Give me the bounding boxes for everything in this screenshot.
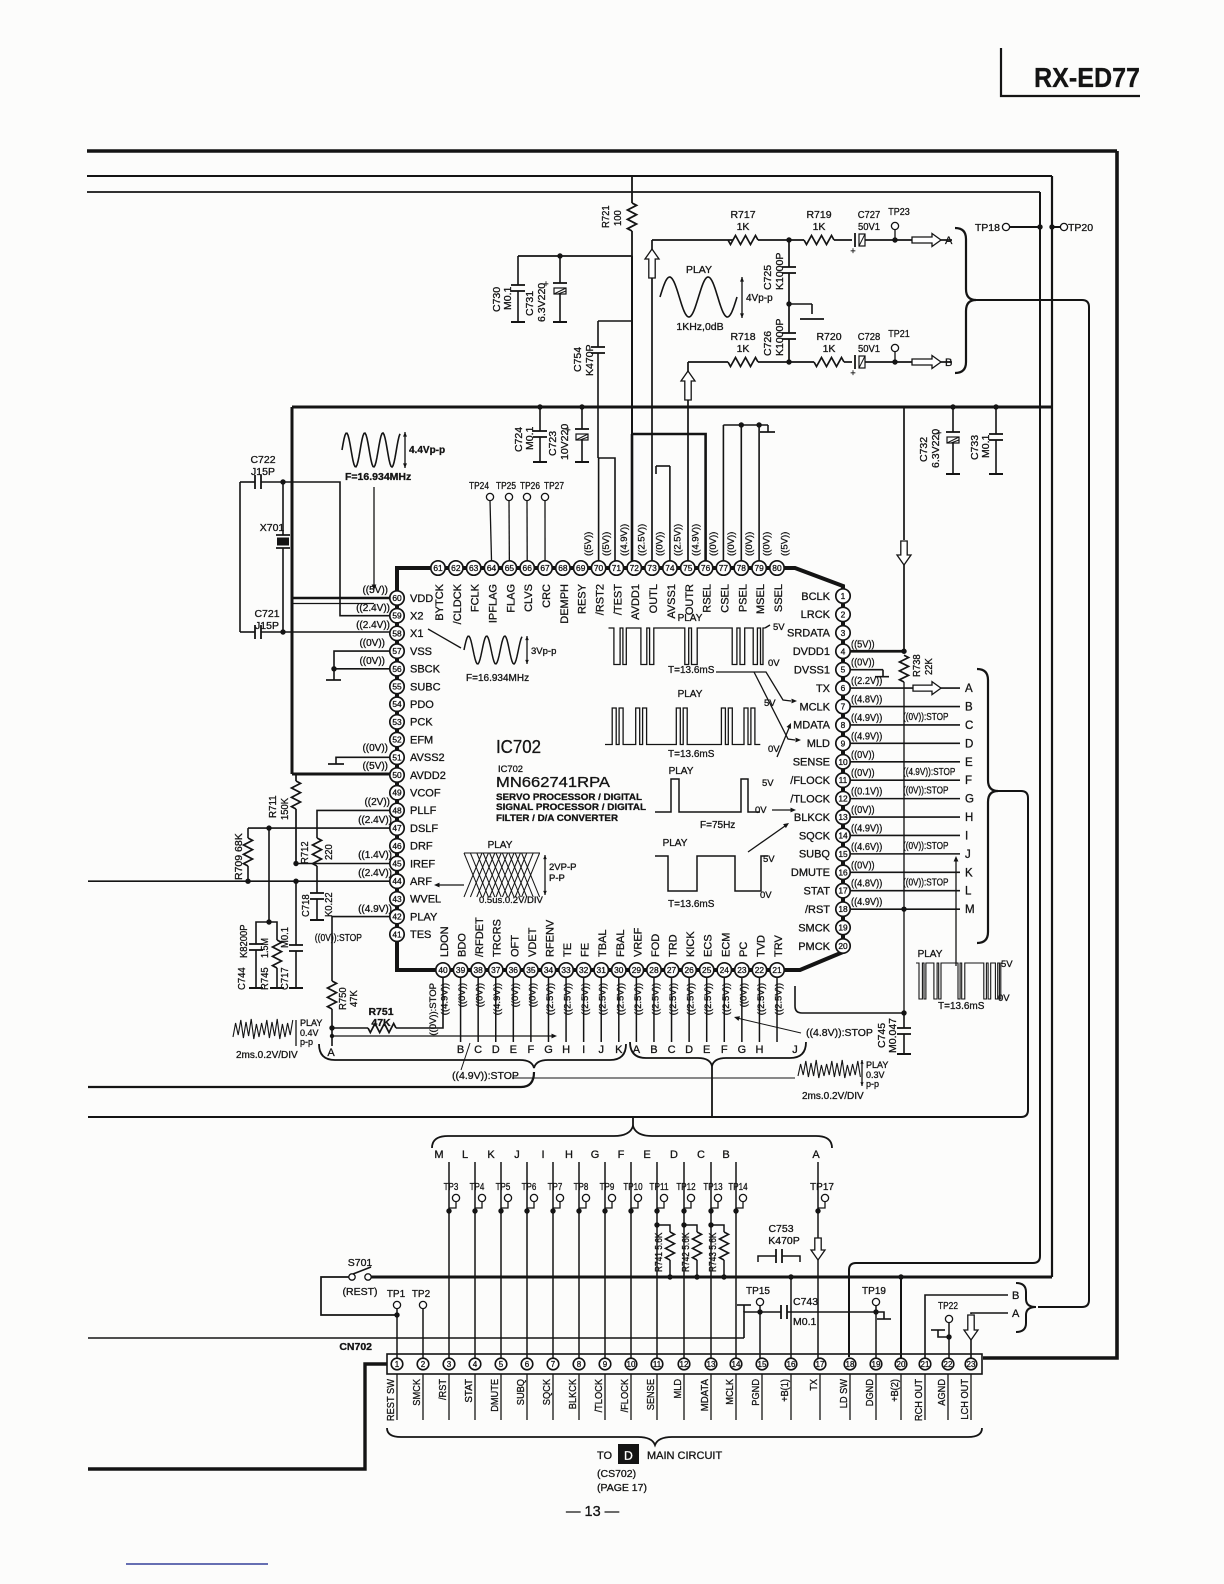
wire A/B bundle to V3 <box>976 300 1089 1307</box>
pin 19 CN702 DGND <box>870 1358 882 1370</box>
svg-text:1KHz,0dB: 1KHz,0dB <box>676 321 723 333</box>
svg-text:((2.5V)): ((2.5V)) <box>615 983 626 1015</box>
svg-text:((2.5V)): ((2.5V)) <box>563 983 574 1015</box>
svg-text:23: 23 <box>737 965 747 975</box>
svg-text:PLAY: PLAY <box>678 613 703 624</box>
capacitor C730 M0.1 <box>517 256 519 285</box>
svg-text:E: E <box>703 1044 710 1056</box>
capacitor C724 M0.1 <box>537 404 542 409</box>
svg-text:((0V)): ((0V)) <box>851 804 875 816</box>
wire ARF long (to left edge) <box>88 880 390 882</box>
resistor R741 5.6K <box>657 1225 670 1232</box>
svg-text:15: 15 <box>758 1360 767 1369</box>
svg-text:FBAL: FBAL <box>615 929 627 957</box>
svg-text:28: 28 <box>649 965 659 975</box>
svg-text:TVD: TVD <box>755 935 767 957</box>
pin 44 ARF <box>390 874 404 888</box>
svg-text:4Vp-p: 4Vp-p <box>746 293 773 304</box>
pin 30 FBAL <box>612 963 626 977</box>
svg-text:220: 220 <box>323 844 335 860</box>
svg-text:((0V)):STOP: ((0V)):STOP <box>428 983 439 1036</box>
svg-text:A: A <box>965 683 973 695</box>
pin 20 CN702 +B(2) <box>895 1358 907 1370</box>
resistor R745 1.5M <box>269 922 277 940</box>
svg-text:((0V)):STOP: ((0V)):STOP <box>903 711 949 723</box>
svg-text:TP1: TP1 <box>387 1289 406 1300</box>
svg-text:((0V)): ((0V)) <box>744 532 755 556</box>
wire node K to CN702 pin5 <box>500 1162 502 1358</box>
wire +B(1) riser <box>790 1277 792 1358</box>
wire C727 to arrow A <box>880 239 912 241</box>
svg-text:72: 72 <box>630 563 640 573</box>
svg-text:D: D <box>685 1044 693 1056</box>
wire pin39 stub <box>460 977 462 1042</box>
svg-text:80: 80 <box>772 563 782 573</box>
pin 21 CN702 RCH OUT <box>919 1358 931 1370</box>
svg-text:B: B <box>1012 1290 1019 1302</box>
svg-text:4: 4 <box>841 646 846 656</box>
svg-text:19: 19 <box>872 1360 881 1369</box>
pointer arrow to H wire <box>332 1035 552 1037</box>
wire pin25 stub <box>706 977 708 1042</box>
svg-text:X2: X2 <box>410 611 423 623</box>
svg-text:B: B <box>722 1149 729 1161</box>
pin 6 CN702 SUBQ <box>521 1358 533 1370</box>
svg-text:ARF: ARF <box>410 876 432 888</box>
svg-text:((0V)):STOP: ((0V)):STOP <box>903 840 949 852</box>
wire R718 to node <box>758 361 814 363</box>
svg-text:/CLDCK: /CLDCK <box>452 583 464 624</box>
svg-text:/FLOCK: /FLOCK <box>790 775 830 787</box>
svg-text:29: 29 <box>632 965 642 975</box>
pin 66 CLVS <box>520 561 534 575</box>
capacitor C725 K1000P <box>788 240 790 267</box>
svg-text:CRC: CRC <box>541 584 553 608</box>
svg-text:((2.4V)): ((2.4V)) <box>356 620 390 631</box>
svg-text:6.3V220: 6.3V220 <box>536 283 548 322</box>
svg-text:PCK: PCK <box>410 717 433 729</box>
resistor R751 47K <box>332 1027 368 1029</box>
wire R720 to C728 <box>844 361 852 363</box>
wire right vertical V1 <box>849 192 1040 1357</box>
svg-text:C: C <box>474 1044 482 1056</box>
svg-text:C753: C753 <box>768 1223 793 1235</box>
capacitor C717 M0.1 <box>295 881 297 945</box>
svg-text:R743 5.6K: R743 5.6K <box>708 1232 719 1272</box>
svg-text:C728: C728 <box>858 331 881 343</box>
svg-text:((0V)): ((0V)) <box>851 767 875 779</box>
svg-text:63: 63 <box>469 563 479 573</box>
pin 80 SSEL <box>770 561 784 575</box>
svg-text:F=16.934MHz: F=16.934MHz <box>345 471 411 483</box>
svg-text:47K: 47K <box>371 1017 391 1029</box>
svg-text:R712: R712 <box>299 841 311 864</box>
svg-text:TP22: TP22 <box>938 1301 958 1312</box>
capacitor C723 10V220 (electrolytic) <box>579 404 584 409</box>
svg-text:49: 49 <box>392 788 402 798</box>
wire DVSS1 gnd <box>850 669 883 671</box>
svg-text:FOD: FOD <box>650 934 662 957</box>
svg-text:TP12: TP12 <box>676 1182 695 1193</box>
svg-text:C: C <box>697 1149 705 1161</box>
node X1 net <box>280 629 285 634</box>
wire top rail 2 <box>87 175 1052 177</box>
svg-text:PLAY: PLAY <box>300 1018 322 1028</box>
wire letters bundle to bottom <box>88 791 1028 1117</box>
pin 49 VCOF <box>390 786 404 800</box>
svg-text:M: M <box>434 1149 443 1161</box>
svg-text:DVDD1: DVDD1 <box>793 646 830 658</box>
svg-text:1K: 1K <box>737 221 750 233</box>
pin 13 BLKCK <box>836 810 850 824</box>
svg-text:WVEL: WVEL <box>410 894 441 906</box>
wire pin15 to node J <box>850 853 960 855</box>
svg-text:OFT: OFT <box>509 935 521 957</box>
svg-text:46: 46 <box>392 841 402 851</box>
svg-text:68: 68 <box>558 563 568 573</box>
svg-text:L: L <box>965 886 972 898</box>
svg-text:A: A <box>945 235 953 247</box>
svg-text:((4.6V)): ((4.6V)) <box>851 841 882 853</box>
svg-text:H: H <box>565 1149 573 1161</box>
pin 32 FE <box>576 963 590 977</box>
svg-text:TP2: TP2 <box>412 1289 431 1300</box>
svg-text:VDD: VDD <box>410 593 433 605</box>
pin 76 RSEL <box>698 561 712 575</box>
svg-text:B: B <box>965 702 973 714</box>
svg-text:BDO: BDO <box>457 933 469 957</box>
svg-text:T=13.6mS: T=13.6mS <box>668 899 715 910</box>
pin 73 OUTL <box>645 561 659 575</box>
svg-text:52: 52 <box>392 735 402 745</box>
svg-text:SSEL: SSEL <box>773 584 785 612</box>
wire pin18 to node M <box>850 908 960 910</box>
pin 77 CSEL <box>716 561 730 575</box>
svg-text:0V: 0V <box>760 890 772 901</box>
pin 18 CN702 LD SW <box>844 1358 856 1370</box>
svg-text:((4.9V)): ((4.9V)) <box>358 904 392 915</box>
wire pin14 to node I <box>850 834 960 836</box>
svg-text:53: 53 <box>392 717 402 727</box>
wire pin28 stub <box>653 977 655 1042</box>
svg-text:45: 45 <box>392 859 402 869</box>
svg-text:((2.5V)): ((2.5V)) <box>703 983 714 1015</box>
svg-text:PLAY: PLAY <box>488 840 513 851</box>
svg-text:PDO: PDO <box>410 699 434 711</box>
svg-text:AVSS2: AVSS2 <box>410 752 445 764</box>
svg-text:26: 26 <box>684 965 694 975</box>
wire CN702 left thick feed <box>88 1364 387 1469</box>
svg-text:30: 30 <box>614 965 624 975</box>
svg-text:5V: 5V <box>763 854 775 865</box>
pointer arrow to VDD wire <box>373 487 375 585</box>
svg-text:G: G <box>591 1149 600 1161</box>
waveform ARF eye pattern <box>464 853 482 897</box>
pin 26 KICK <box>682 963 696 977</box>
resistor R720 <box>814 358 844 367</box>
svg-text:K: K <box>487 1149 495 1161</box>
capacitor C718 K0.22 <box>310 892 324 894</box>
svg-text:55: 55 <box>392 682 402 692</box>
svg-text:((4.9V)):STOP: ((4.9V)):STOP <box>903 766 955 778</box>
wire node A to CN702 pin17 <box>817 1162 819 1238</box>
label D main circuit box <box>618 1444 639 1464</box>
svg-text:F: F <box>528 1044 535 1056</box>
svg-text:P-P: P-P <box>549 873 565 884</box>
svg-text:RX-ED77: RX-ED77 <box>1034 62 1140 93</box>
svg-text:((5V)): ((5V)) <box>779 532 790 556</box>
node C725/C726 mid <box>786 301 791 306</box>
svg-text:— 13 —: — 13 — <box>566 1504 620 1520</box>
pin 6 TX <box>836 681 850 695</box>
svg-text:21: 21 <box>772 965 782 975</box>
pin 3 SRDATA <box>836 626 850 640</box>
pointer B to STOP label <box>461 1043 470 1070</box>
wire S701 left loop <box>321 1277 397 1315</box>
wire AVDD1 riser thick <box>631 434 634 561</box>
svg-text:((5V)): ((5V)) <box>851 638 875 650</box>
svg-text:34: 34 <box>544 965 554 975</box>
svg-text:SUBC: SUBC <box>410 681 441 693</box>
svg-text:ECS: ECS <box>703 934 715 957</box>
svg-text:((1.4V)): ((1.4V)) <box>358 850 392 861</box>
svg-text:R718: R718 <box>730 331 755 343</box>
svg-text:p-p: p-p <box>866 1079 879 1089</box>
svg-text:FLAG: FLAG <box>505 584 517 613</box>
svg-text:C721: C721 <box>254 608 279 620</box>
svg-text:J: J <box>598 1044 604 1056</box>
svg-text:70: 70 <box>594 563 604 573</box>
svg-text:C718: C718 <box>300 894 312 917</box>
pin 65 FLAG <box>502 561 516 575</box>
pointer ECM to STOP label <box>737 1018 801 1033</box>
wire C728 to arrow B <box>880 361 912 363</box>
pin 69 RESY <box>574 561 588 575</box>
svg-text:R738: R738 <box>911 654 923 677</box>
testpoint TP20 <box>1060 223 1067 230</box>
svg-text:G: G <box>544 1044 553 1056</box>
pin 19 SMCK <box>836 920 850 934</box>
svg-text:33: 33 <box>561 965 571 975</box>
svg-text:E: E <box>643 1149 650 1161</box>
svg-text:VREF: VREF <box>632 927 644 957</box>
svg-text:36: 36 <box>509 965 519 975</box>
pin 20 PMCK <box>836 939 850 953</box>
svg-text:1: 1 <box>395 1360 400 1369</box>
pin 61 BYTCK <box>431 561 445 575</box>
svg-text:C723: C723 <box>547 431 559 456</box>
wire pin38 stub <box>477 977 479 1042</box>
svg-text:((5V)): ((5V)) <box>583 532 594 556</box>
brace right letters A-M <box>977 669 998 943</box>
arrow right to A <box>912 234 941 247</box>
svg-text:I: I <box>582 1044 585 1056</box>
pin 67 CRC <box>538 561 552 575</box>
svg-text:10: 10 <box>838 757 848 767</box>
svg-text:((4.9V)):STOP: ((4.9V)):STOP <box>452 1070 519 1082</box>
svg-text:SERVO PROCESSOR / DIGITAL: SERVO PROCESSOR / DIGITAL <box>496 792 642 802</box>
svg-text:J15P: J15P <box>255 620 279 632</box>
wire R745/C744 riser <box>268 828 270 922</box>
wire PGND rail to left edge <box>88 1337 744 1339</box>
svg-text:AVDD1: AVDD1 <box>630 584 642 620</box>
wire pin29 stub <box>635 977 637 1042</box>
wire right border thick (frame) <box>983 151 1117 1358</box>
svg-text:X1: X1 <box>410 628 423 640</box>
capacitor C745 M0.047 <box>901 1010 906 1015</box>
wire pin21 stub <box>776 977 778 1042</box>
arrow right to B <box>912 356 941 369</box>
svg-text:25: 25 <box>702 965 712 975</box>
pointer arrow to J wire <box>955 860 957 966</box>
resistor R743 5.6K <box>711 1225 724 1232</box>
svg-text:((0V)): ((0V)) <box>359 638 385 649</box>
svg-text:R719: R719 <box>806 209 831 221</box>
wire arrow to A <box>941 239 952 241</box>
svg-text:TP4: TP4 <box>470 1182 485 1193</box>
svg-text:/RST: /RST <box>805 904 830 916</box>
testpoint TP21 <box>891 344 898 351</box>
svg-text:((2.5V)): ((2.5V)) <box>598 983 609 1015</box>
node C726 bottom <box>786 359 791 364</box>
wire pin17 to node L <box>850 890 960 892</box>
svg-text:AVSS1: AVSS1 <box>666 584 678 619</box>
pin 72 AVDD1 <box>627 561 641 575</box>
wire top border thick <box>87 149 1117 153</box>
svg-text:21: 21 <box>921 1360 930 1369</box>
svg-text:+B(1): +B(1) <box>779 1379 791 1402</box>
wire X2 net <box>283 482 390 616</box>
pin 75 OUTR <box>681 561 695 575</box>
pin 35 VDET <box>524 963 538 977</box>
svg-text:((0V)): ((0V)) <box>359 656 385 667</box>
pin 34 RFENV <box>541 963 555 977</box>
pin 22 TVD <box>752 963 766 977</box>
svg-text:((0V)): ((0V)) <box>708 532 719 556</box>
svg-text:+: + <box>850 368 855 378</box>
svg-text:18: 18 <box>838 904 848 914</box>
svg-text:1: 1 <box>841 591 846 601</box>
wire arrow to B <box>941 361 952 363</box>
wire inner rail top <box>292 406 1052 409</box>
svg-text:BLKCK: BLKCK <box>794 812 831 824</box>
connector CN702 body <box>387 1354 982 1374</box>
svg-text:51: 51 <box>392 752 402 762</box>
svg-text:((2.5V)): ((2.5V)) <box>545 983 556 1015</box>
svg-text:TP26: TP26 <box>520 481 540 492</box>
svg-text:+: + <box>850 246 855 256</box>
svg-text:2ms.0.2V/DIV: 2ms.0.2V/DIV <box>236 1050 298 1061</box>
wire +B(2) riser <box>900 1277 902 1358</box>
wire X1 to pin58 <box>283 631 390 633</box>
svg-text:MN662741RPA: MN662741RPA <box>496 775 610 791</box>
svg-text:((4.9V)): ((4.9V)) <box>851 730 882 742</box>
svg-text:(REST): (REST) <box>343 1286 378 1298</box>
pin 74 AVSS1 <box>663 561 677 575</box>
svg-text:TRV: TRV <box>773 935 785 957</box>
pin 9 CN702 /TLOCK <box>599 1358 611 1370</box>
svg-text:2: 2 <box>841 609 846 619</box>
svg-text:C754: C754 <box>572 347 584 372</box>
wire node H to CN702 pin8 <box>578 1162 580 1358</box>
wire pin16 to node K <box>850 871 960 873</box>
pin 64 IPFLAG <box>484 561 498 575</box>
wire inner rail left edge <box>291 407 294 774</box>
wire pin32 stub <box>583 977 585 1042</box>
svg-text:23: 23 <box>967 1360 976 1369</box>
svg-text:C717: C717 <box>279 967 291 990</box>
svg-text:((2.5V)): ((2.5V)) <box>650 983 661 1015</box>
svg-text:20: 20 <box>897 1360 906 1369</box>
wire top rail 3 <box>87 191 1040 193</box>
svg-text:M0.047: M0.047 <box>887 1018 899 1053</box>
svg-text:K8200P: K8200P <box>238 924 250 958</box>
svg-text:3Vp-p: 3Vp-p <box>531 646 556 657</box>
svg-text:27: 27 <box>667 965 677 975</box>
pin 40 LDON <box>436 963 450 977</box>
wire pin6 to node A <box>850 687 960 689</box>
svg-text:TP6: TP6 <box>522 1182 537 1193</box>
arrow right on TX wire <box>913 682 941 695</box>
svg-text:((2.4V)): ((2.4V)) <box>356 603 390 614</box>
pin 42 PLAY <box>390 909 404 923</box>
svg-text:F: F <box>721 1044 728 1056</box>
svg-text:F=16.934MHz: F=16.934MHz <box>466 673 529 684</box>
svg-text:5V: 5V <box>1001 959 1013 970</box>
svg-text:31: 31 <box>597 965 607 975</box>
brace A/B outputs <box>955 228 976 373</box>
wire DVDD1 thick <box>850 650 904 653</box>
svg-text:TP11: TP11 <box>649 1182 668 1193</box>
pin 58 X1 <box>390 626 404 640</box>
pin 1 BCLK <box>836 589 850 603</box>
svg-text:REST SW: REST SW <box>385 1379 397 1421</box>
ground tick PGND <box>743 1305 745 1312</box>
wire group2 to bundle <box>711 1066 713 1117</box>
wire pin9 to node D <box>850 742 960 744</box>
pin 2 CN702 SMCK <box>417 1358 429 1370</box>
pin 24 ECM <box>717 963 731 977</box>
svg-text:D: D <box>492 1044 500 1056</box>
svg-text:TRD: TRD <box>668 934 680 957</box>
svg-text:22: 22 <box>944 1360 953 1369</box>
svg-text:((5V)): ((5V)) <box>362 585 388 596</box>
svg-text:150K: 150K <box>279 798 291 820</box>
wire AVDD2 feed <box>292 773 390 776</box>
pin 54 PDO <box>390 697 404 711</box>
svg-text:58: 58 <box>392 628 402 638</box>
svg-text:((0V)): ((0V)) <box>738 983 749 1007</box>
svg-text:11: 11 <box>839 775 848 785</box>
svg-text:TP10: TP10 <box>623 1182 643 1193</box>
svg-text:CN702: CN702 <box>339 1341 372 1353</box>
svg-text:((0V)): ((0V)) <box>851 657 875 669</box>
svg-text:TP25: TP25 <box>496 481 516 492</box>
svg-text:A: A <box>327 1047 335 1059</box>
svg-text:LRCK: LRCK <box>801 609 831 621</box>
svg-text:0V: 0V <box>998 993 1010 1004</box>
pin 37 TRCRS <box>489 963 503 977</box>
svg-text:((0V)):STOP: ((0V)):STOP <box>903 785 949 797</box>
wire VSS/SBCK gnd <box>334 651 390 680</box>
pin 38 /RFDET <box>471 963 485 977</box>
resistor R719 <box>804 236 834 245</box>
svg-text:T=13.6mS: T=13.6mS <box>668 749 715 760</box>
pin 43 WVEL <box>390 892 404 906</box>
svg-text:R721: R721 <box>600 205 612 228</box>
svg-text:18: 18 <box>846 1360 855 1369</box>
svg-text:RFENV: RFENV <box>544 919 556 957</box>
